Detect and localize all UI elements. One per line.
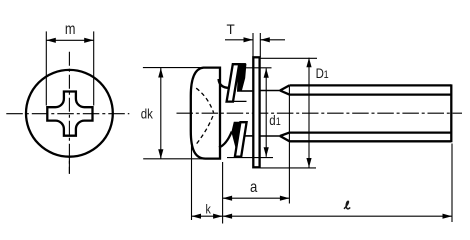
dk arrow up [158,68,163,78]
shank top line washer to thread [260,90,280,92]
head to spring washer fillet arc top [219,79,229,88]
svg-text:1: 1 [276,116,281,128]
T arrow right (pointing left) [260,37,270,42]
thread root line top [289,93,451,95]
shank bottom line washer to thread [260,135,280,137]
wire a dimension line [223,197,290,199]
svg-text:1: 1 [324,69,329,81]
l arrow left [223,214,233,219]
node centerline-side-view [177,112,463,114]
wire dk dimension line [160,68,162,159]
wire T dimension tail left [225,39,253,41]
thread chevron top [280,85,289,94]
wire m dimension line [46,39,93,41]
wire D1 extension bottom [260,167,316,169]
D1 arrow down [306,158,311,168]
svg-text:T: T [226,22,234,37]
wire dk extension bottom [143,158,207,160]
wire d1 dimension line [265,68,267,157]
D1 arrow up [306,58,311,67]
wire k extension left [191,146,193,220]
spring washer bottom half face (white parallelogram) [235,122,247,156]
svg-text:a: a [250,179,258,196]
svg-text:D: D [316,65,324,81]
spring washer top half section (black) [238,64,246,91]
T arrow left (pointing right) [244,37,254,42]
svg-text:k: k [205,201,210,216]
wire k dimension line [192,215,223,217]
phillips recess cross (top view) [47,92,92,136]
phillips recess hidden lines (dashed, side view) [196,88,213,113]
wire d1 extension top [246,67,272,69]
dk arrow down [158,149,163,159]
spring washer top half inner edge [227,100,247,102]
shank line top under washers [242,90,254,92]
wire m extension line left [45,31,47,105]
head outline circle (top view) [26,70,113,157]
head to spring washer fillet arc bottom [219,132,232,148]
spring washer top half top edge [233,63,246,65]
spring washer top half face (white parallelogram) [227,64,240,101]
svg-text:dk: dk [141,105,154,121]
wire D1 extension top [260,57,317,59]
wire k+a+l extension (bearing face) [222,162,224,224]
d1 arrow up [264,68,269,78]
m arrow left [46,38,56,43]
wire T dimension tail right [260,39,285,41]
thread chevron bottom [280,133,289,142]
thread root line bottom [289,131,451,133]
wire m extension line right [93,31,95,105]
wire l dimension line [223,215,452,217]
wire l extension right [451,144,453,223]
l arrow right [443,214,453,219]
d1 arrow down [264,147,269,157]
label l (script ell) [344,201,350,209]
a arrow right [280,196,290,201]
k arrow right [213,214,223,219]
shank line bottom under washers [244,135,254,137]
wire T extension left [252,33,254,57]
svg-text:d: d [269,112,275,128]
a arrow left [223,196,233,201]
wire dk extension top [143,67,205,69]
thread crest line top [289,84,451,86]
svg-text:m: m [65,21,76,38]
wire a extension right [288,86,290,204]
pan head (side view) [191,68,220,159]
shank end cap [450,84,452,142]
node centerline-left-view-horizontal [6,113,129,115]
flat washer (side view) [253,57,259,167]
k arrow left [192,214,202,219]
m arrow right [84,38,94,43]
wire d1 extension bottom [227,157,273,159]
spring washer bottom half section (black) [232,122,241,148]
thread crest line bottom [289,140,451,142]
wire T extension right [259,33,261,57]
wire centerline solid tail below circle [68,157,70,174]
wire D1 dimension line [308,58,310,168]
node centerline-left-view-vertical [68,52,70,174]
